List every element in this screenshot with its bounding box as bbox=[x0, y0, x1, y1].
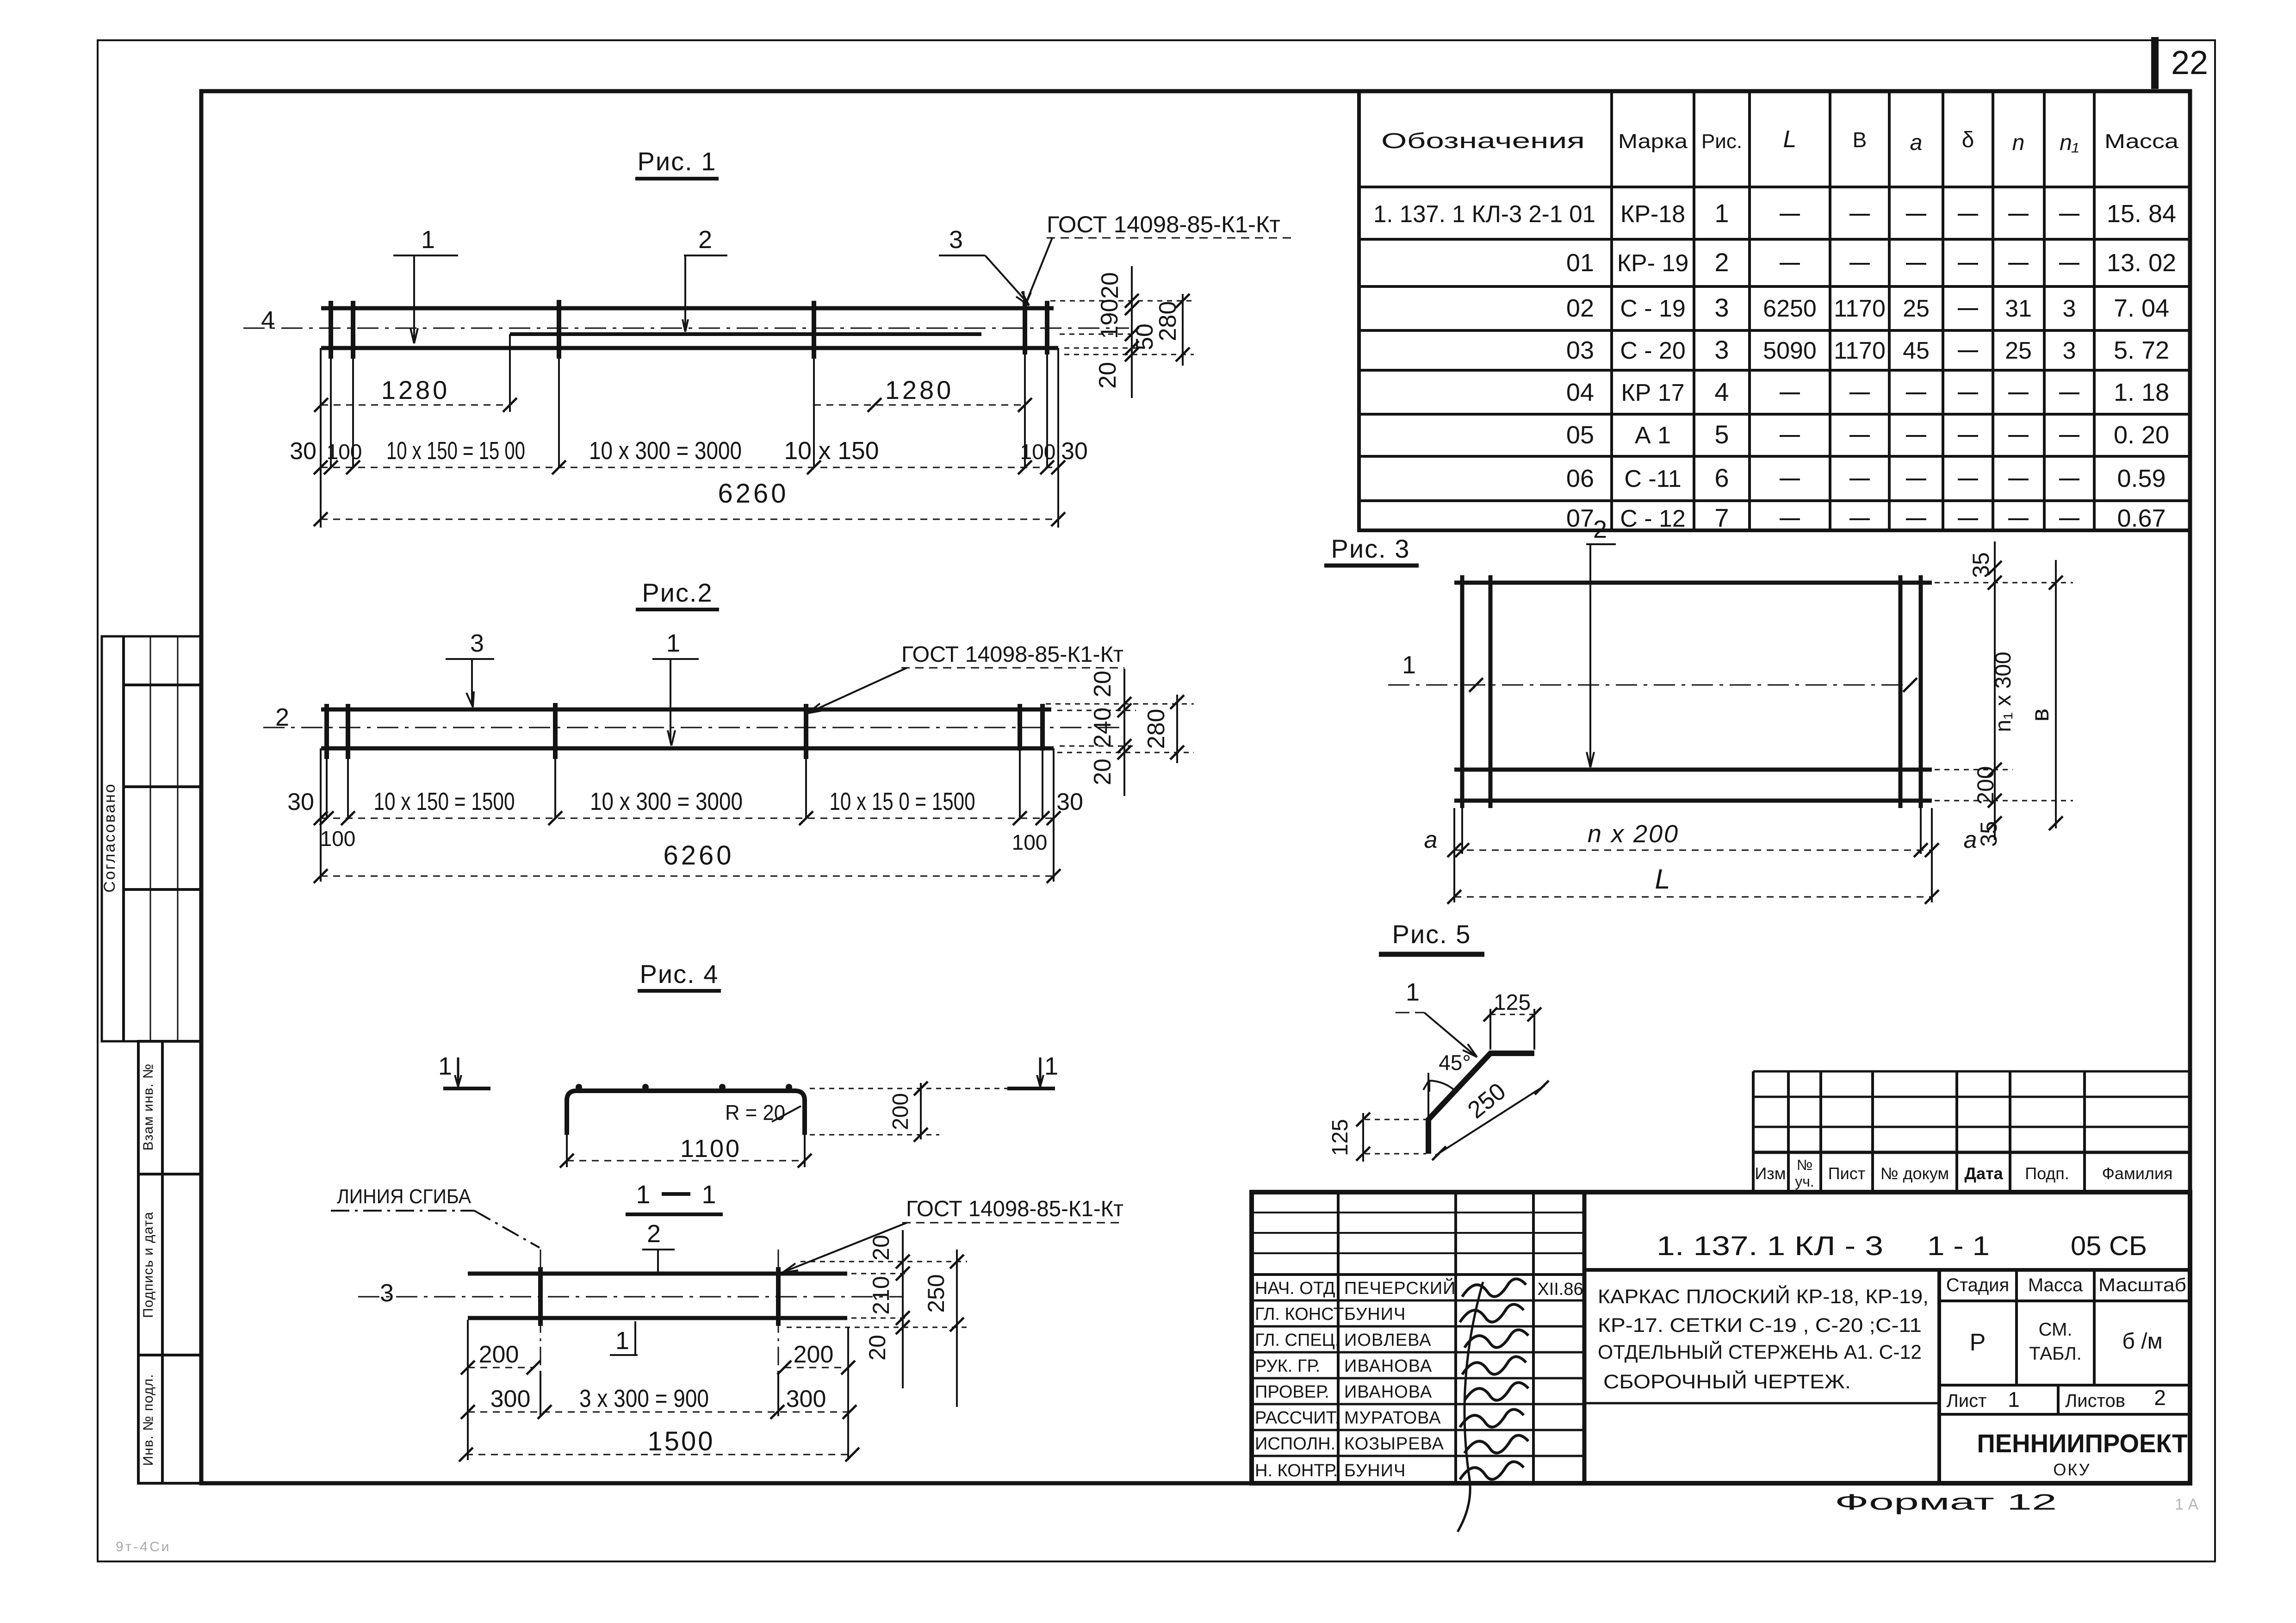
fig1 top chord bar3 bbox=[321, 306, 1054, 311]
svg-text:2: 2 bbox=[1714, 248, 1729, 277]
fig2 cross bar d bbox=[804, 704, 808, 759]
svg-text:ИВАНОВА: ИВАНОВА bbox=[1344, 1382, 1432, 1402]
svg-text:Стадия: Стадия bbox=[1946, 1275, 2009, 1295]
svg-text:№ докум: № докум bbox=[1880, 1164, 1949, 1183]
fig1 dim 1280 left bbox=[321, 404, 510, 406]
svg-text:С - 12: С - 12 bbox=[1620, 505, 1686, 532]
doc number cell line bbox=[1584, 1268, 2190, 1272]
fig2 spacing dims bbox=[287, 788, 1083, 854]
fig5 dim 250 bbox=[1435, 1086, 1545, 1156]
svg-text:КР-18: КР-18 bbox=[1620, 201, 1685, 228]
svg-text:РАССЧИТ.: РАССЧИТ. bbox=[1255, 1408, 1340, 1428]
svg-text:05: 05 bbox=[1566, 421, 1594, 449]
svg-text:ГОСТ 14098-85-К1-Кт: ГОСТ 14098-85-К1-Кт bbox=[1047, 211, 1280, 237]
stage block divider bbox=[1937, 1270, 1941, 1483]
svg-text:Изм: Изм bbox=[1755, 1164, 1786, 1183]
svg-text:10 x 150: 10 x 150 bbox=[784, 437, 879, 465]
revision table grid bbox=[1753, 1071, 2190, 1192]
svg-text:1: 1 bbox=[1402, 651, 1416, 679]
svg-text:СБОРОЧНЫЙ ЧЕРТЕЖ.: СБОРОЧНЫЙ ЧЕРТЕЖ. bbox=[1603, 1370, 1851, 1393]
svg-text:4: 4 bbox=[1714, 377, 1729, 406]
svg-text:1: 1 bbox=[438, 1052, 452, 1080]
fig3 left bar b bbox=[1489, 575, 1493, 808]
svg-text:БУНИЧ: БУНИЧ bbox=[1344, 1461, 1406, 1480]
svg-text:1: 1 bbox=[1406, 978, 1420, 1006]
svg-text:10 x 15 0 = 1500: 10 x 15 0 = 1500 bbox=[830, 788, 975, 815]
fig1 cross bar b bbox=[351, 301, 355, 359]
svg-text:30: 30 bbox=[1061, 438, 1088, 465]
approval strip box bbox=[102, 636, 201, 1041]
svg-text:45°: 45° bbox=[1439, 1051, 1471, 1075]
svg-text:250: 250 bbox=[923, 1274, 949, 1312]
svg-text:КР-17. СЕТКИ С-19 , С-20 ;С-1: КР-17. СЕТКИ С-19 , С-20 ;С-11 bbox=[1598, 1314, 1922, 1337]
svg-text:1170: 1170 bbox=[1834, 337, 1886, 364]
fig3 middle bar bbox=[1454, 768, 1932, 772]
svg-text:ПРОВЕР.: ПРОВЕР. bbox=[1255, 1382, 1329, 1402]
title block responsibles bbox=[1255, 1277, 1456, 1480]
fig3 left bar a bbox=[1460, 575, 1464, 808]
svg-text:200: 200 bbox=[888, 1093, 913, 1130]
svg-text:С - 20: С - 20 bbox=[1620, 337, 1686, 364]
spec table data bbox=[1373, 199, 2176, 532]
svg-text:100: 100 bbox=[1020, 440, 1056, 464]
svg-text:Н. КОНТР.: Н. КОНТР. bbox=[1255, 1461, 1338, 1480]
svg-text:3: 3 bbox=[2063, 337, 2076, 364]
svg-text:ТАБЛ.: ТАБЛ. bbox=[2029, 1343, 2081, 1364]
svg-text:С - 19: С - 19 bbox=[1620, 295, 1686, 322]
svg-text:1170: 1170 bbox=[1834, 295, 1886, 322]
svg-text:2: 2 bbox=[275, 703, 289, 731]
svg-text:20: 20 bbox=[1097, 272, 1123, 299]
svg-text:20: 20 bbox=[1089, 671, 1116, 697]
svg-text:100: 100 bbox=[320, 827, 356, 851]
fig2 cross bar e bbox=[1018, 704, 1022, 751]
svg-text:20: 20 bbox=[1094, 362, 1121, 389]
fig1 bottom chord bar1 bbox=[321, 346, 1058, 350]
svg-text:30: 30 bbox=[287, 789, 314, 815]
svg-text:4: 4 bbox=[261, 306, 275, 334]
svg-text:Рис.2: Рис.2 bbox=[642, 578, 713, 607]
svg-text:35: 35 bbox=[1968, 552, 1994, 578]
fig2 height dims bbox=[1046, 669, 1194, 796]
svg-text:Масштаб: Масштаб bbox=[2098, 1275, 2186, 1295]
svg-text:7: 7 bbox=[1714, 503, 1729, 532]
fig3 top bar bbox=[1454, 581, 1932, 585]
doc name cell line bbox=[1584, 1402, 1939, 1405]
svg-text:3: 3 bbox=[380, 1279, 394, 1307]
svg-text:Пист: Пист bbox=[1828, 1164, 1865, 1183]
svg-text:δ: δ bbox=[1962, 128, 1974, 152]
svg-text:30: 30 bbox=[290, 438, 316, 465]
svg-text:б /м: б /м bbox=[2122, 1329, 2162, 1354]
svg-text:2: 2 bbox=[698, 226, 712, 254]
fig1 spacing dims bbox=[290, 437, 1088, 474]
svg-text:0.59: 0.59 bbox=[2117, 465, 2166, 492]
fig3 right bar a bbox=[1899, 575, 1903, 808]
svg-text:6260: 6260 bbox=[718, 479, 788, 509]
svg-text:№: № bbox=[1797, 1157, 1812, 1173]
svg-text:Масса: Масса bbox=[2028, 1275, 2083, 1295]
svg-text:Подпись и дата: Подпись и дата bbox=[141, 1212, 156, 1318]
fig2 bottom chord bar1 bbox=[321, 746, 1054, 751]
svg-text:1280: 1280 bbox=[381, 375, 450, 404]
svg-text:5. 72: 5. 72 bbox=[2114, 336, 2169, 364]
sec11 width dims bbox=[459, 1320, 859, 1461]
svg-text:280: 280 bbox=[1143, 709, 1170, 749]
fig2 cross bar a bbox=[324, 704, 329, 759]
fig2 cross bar c bbox=[553, 703, 558, 759]
svg-text:ЛИНИЯ СГИБА: ЛИНИЯ СГИБА bbox=[337, 1185, 472, 1208]
svg-text:0.67: 0.67 bbox=[2117, 504, 2166, 532]
svg-text:Рис. 3: Рис. 3 bbox=[1331, 534, 1410, 563]
svg-text:1: 1 bbox=[421, 226, 435, 254]
svg-text:13. 02: 13. 02 bbox=[2107, 249, 2176, 277]
svg-text:06: 06 bbox=[1566, 465, 1594, 492]
svg-text:С -11: С -11 bbox=[1624, 466, 1681, 492]
svg-text:125: 125 bbox=[1328, 1119, 1353, 1156]
svg-text:КОЗЫРЕВА: КОЗЫРЕВА bbox=[1344, 1434, 1444, 1454]
svg-text:300: 300 bbox=[490, 1386, 531, 1412]
svg-text:СМ.: СМ. bbox=[2039, 1319, 2073, 1340]
fig1 cross bar d bbox=[812, 301, 816, 359]
svg-text:1: 1 bbox=[1044, 1052, 1058, 1080]
fig5 dim 125 top bbox=[1489, 1009, 1491, 1050]
fig2 top chord bar3 bbox=[321, 708, 1051, 712]
svg-text:Инв. № подл.: Инв. № подл. bbox=[141, 1374, 156, 1466]
svg-text:1: 1 bbox=[666, 629, 680, 657]
fig1 axis line bbox=[243, 328, 1129, 329]
sec11 bottom bar1 bbox=[468, 1316, 847, 1320]
svg-text:L: L bbox=[1783, 126, 1797, 153]
svg-text:1 А: 1 А bbox=[2175, 1496, 2198, 1513]
svg-text:1 - 1: 1 - 1 bbox=[1927, 1231, 1990, 1261]
fig1 middle bar2 bbox=[510, 332, 981, 336]
fig1 cross bar c bbox=[557, 300, 561, 359]
svg-text:45: 45 bbox=[1903, 337, 1930, 364]
fig1 dim 1280 right bbox=[814, 404, 1025, 406]
svg-text:5: 5 bbox=[1714, 420, 1729, 449]
svg-text:1. 137. 1 КЛ - 3: 1. 137. 1 КЛ - 3 bbox=[1657, 1231, 1883, 1261]
svg-text:25: 25 bbox=[2005, 337, 2032, 364]
fig4 cut mark right bbox=[1007, 1087, 1055, 1090]
doc name bbox=[1598, 1285, 1929, 1393]
svg-text:6: 6 bbox=[1714, 463, 1729, 492]
svg-text:ГОСТ 14098-85-К1-Кт: ГОСТ 14098-85-К1-Кт bbox=[906, 1197, 1123, 1221]
svg-text:n₁ x 300: n₁ x 300 bbox=[1991, 652, 2016, 732]
fig4 channel outline bbox=[567, 1091, 805, 1135]
svg-text:в: в bbox=[2026, 709, 2054, 722]
svg-text:Лист: Лист bbox=[1947, 1391, 1987, 1411]
fig4 dim 1100 bbox=[566, 1135, 568, 1167]
svg-text:1. 137. 1 КЛ-3 2-1 01: 1. 137. 1 КЛ-3 2-1 01 bbox=[1373, 201, 1595, 228]
fig1 dim 6260 bbox=[321, 519, 1058, 520]
svg-text:В: В bbox=[1853, 128, 1867, 152]
svg-text:ПЕННИИПРОЕКТ: ПЕННИИПРОЕКТ bbox=[1977, 1429, 2188, 1458]
svg-text:280: 280 bbox=[1154, 301, 1181, 342]
svg-text:1. 18: 1. 18 bbox=[2114, 379, 2169, 406]
sec11 top bar2 bbox=[468, 1272, 847, 1276]
svg-text:Формат 12: Формат 12 bbox=[1835, 1490, 2057, 1515]
svg-text:НАЧ. ОТД.: НАЧ. ОТД. bbox=[1255, 1279, 1340, 1298]
svg-text:03: 03 bbox=[1566, 336, 1594, 364]
svg-text:Масса: Масса bbox=[2104, 130, 2179, 153]
svg-text:1100: 1100 bbox=[680, 1135, 741, 1163]
svg-text:3: 3 bbox=[470, 629, 484, 657]
sec11 fold line right bbox=[778, 1250, 779, 1371]
svg-text:10 x 300 = 3000: 10 x 300 = 3000 bbox=[589, 437, 742, 465]
svg-text:а: а bbox=[1424, 827, 1438, 853]
svg-text:20: 20 bbox=[868, 1235, 894, 1261]
svg-text:05 СБ: 05 СБ bbox=[2071, 1231, 2147, 1261]
svg-text:2: 2 bbox=[647, 1220, 661, 1248]
svg-text:а: а bbox=[1964, 827, 1977, 853]
svg-text:3: 3 bbox=[949, 226, 963, 254]
svg-text:190: 190 bbox=[1096, 299, 1123, 339]
svg-text:1: 1 bbox=[615, 1327, 629, 1355]
svg-text:3: 3 bbox=[2063, 295, 2076, 322]
svg-text:Согласовано: Согласовано bbox=[101, 783, 118, 892]
svg-text:100: 100 bbox=[327, 440, 362, 464]
svg-text:35: 35 bbox=[1976, 821, 2002, 847]
svg-text:БУНИЧ: БУНИЧ bbox=[1344, 1305, 1406, 1324]
svg-text:А 1: А 1 bbox=[1635, 422, 1671, 449]
fig4 dim 200 bbox=[810, 1088, 1011, 1089]
fig2 dim 6260 bbox=[321, 876, 1054, 877]
svg-text:Листов: Листов bbox=[2065, 1391, 2125, 1411]
fig1 cross bar f bbox=[1045, 301, 1049, 354]
svg-text:02: 02 bbox=[1566, 294, 1594, 322]
svg-text:10 x 150 = 1500: 10 x 150 = 1500 bbox=[374, 788, 515, 815]
fig1 cross bar a bbox=[329, 301, 333, 359]
svg-text:а: а bbox=[1910, 131, 1923, 155]
spec table grid bbox=[1359, 91, 2190, 530]
svg-text:07: 07 bbox=[1566, 504, 1594, 532]
svg-text:L: L bbox=[1655, 864, 1670, 895]
svg-text:6260: 6260 bbox=[663, 840, 734, 871]
fig2 cross bar b bbox=[346, 704, 350, 759]
fig3 width dims bbox=[1424, 808, 1977, 904]
svg-text:1: 1 bbox=[2008, 1387, 2020, 1412]
title block outline bbox=[1252, 1192, 2190, 1483]
fig4 wire dots bbox=[576, 1084, 792, 1090]
fig3 bottom bar bbox=[1454, 799, 1932, 803]
svg-text:ГЛ. СПЕЦ.: ГЛ. СПЕЦ. bbox=[1255, 1331, 1340, 1350]
svg-text:1500: 1500 bbox=[647, 1426, 714, 1456]
svg-text:200: 200 bbox=[794, 1341, 834, 1368]
svg-text:31: 31 bbox=[2005, 295, 2032, 322]
svg-text:n₁: n₁ bbox=[2060, 131, 2079, 155]
fig1 height dims bbox=[1050, 266, 1194, 398]
svg-text:2: 2 bbox=[2154, 1386, 2166, 1410]
fig1 extension lines bbox=[321, 334, 1058, 528]
svg-text:1: 1 bbox=[636, 1180, 650, 1209]
svg-text:n x 200: n x 200 bbox=[1588, 820, 1679, 848]
svg-text:240: 240 bbox=[1089, 708, 1116, 748]
svg-text:200: 200 bbox=[1973, 766, 1998, 804]
sheet count row bbox=[1939, 1385, 2190, 1414]
svg-text:3: 3 bbox=[1714, 293, 1729, 322]
fig3 height dims bbox=[1925, 541, 2073, 847]
fig5 angle 45 bbox=[1427, 1073, 1429, 1117]
svg-text:20: 20 bbox=[864, 1335, 890, 1361]
svg-text:Подп.: Подп. bbox=[2025, 1164, 2069, 1183]
svg-text:Рис. 4: Рис. 4 bbox=[640, 959, 719, 989]
svg-text:уч.: уч. bbox=[1795, 1173, 1814, 1190]
svg-text:200: 200 bbox=[479, 1341, 519, 1368]
svg-text:04: 04 bbox=[1566, 379, 1594, 406]
revision table headers bbox=[1755, 1157, 2172, 1190]
svg-text:Рис.: Рис. bbox=[1701, 130, 1742, 153]
fig1 cross bar e bbox=[1023, 301, 1027, 354]
svg-text:МУРАТОВА: МУРАТОВА bbox=[1344, 1408, 1441, 1428]
sec11 axis line bbox=[358, 1296, 902, 1298]
drawing frame bbox=[201, 91, 2190, 1483]
svg-text:Р: Р bbox=[1970, 1329, 1986, 1356]
svg-text:125: 125 bbox=[1494, 990, 1531, 1015]
svg-text:ГОСТ 14098-85-К1-Кт: ГОСТ 14098-85-К1-Кт bbox=[901, 642, 1123, 667]
sec11 fold bar right bbox=[776, 1267, 781, 1326]
svg-text:R = 20: R = 20 bbox=[725, 1101, 785, 1125]
svg-text:ИОВЛЕВА: ИОВЛЕВА bbox=[1344, 1331, 1432, 1350]
fig2 extension lines bbox=[321, 748, 1054, 882]
sidebar lower boxes bbox=[138, 1041, 201, 1483]
svg-text:1: 1 bbox=[701, 1180, 716, 1209]
svg-text:100: 100 bbox=[1012, 830, 1048, 854]
sec11 fold line left bbox=[540, 1250, 541, 1371]
svg-text:ПЕЧЕРСКИЙ: ПЕЧЕРСКИЙ bbox=[1344, 1277, 1456, 1298]
svg-text:1: 1 bbox=[1714, 199, 1729, 228]
fig2 cross bar f bbox=[1040, 704, 1045, 751]
svg-text:15. 84: 15. 84 bbox=[2107, 200, 2176, 228]
svg-text:КР- 19: КР- 19 bbox=[1617, 250, 1689, 277]
title block signatures bbox=[1458, 1279, 1528, 1532]
svg-text:2: 2 bbox=[1593, 516, 1607, 543]
svg-text:1280: 1280 bbox=[885, 375, 954, 404]
svg-text:9т-4Си: 9т-4Си bbox=[116, 1539, 171, 1555]
svg-text:300: 300 bbox=[786, 1386, 826, 1412]
svg-text:Марка: Марка bbox=[1618, 130, 1688, 153]
fig3 right bar b bbox=[1919, 575, 1923, 808]
svg-text:5090: 5090 bbox=[1763, 337, 1817, 364]
svg-text:Дата: Дата bbox=[1964, 1164, 2003, 1183]
svg-text:РУК. ГР.: РУК. ГР. bbox=[1255, 1356, 1320, 1376]
svg-text:22: 22 bbox=[2171, 44, 2208, 81]
svg-text:n: n bbox=[2012, 131, 2025, 155]
svg-text:Рис. 5: Рис. 5 bbox=[1392, 920, 1471, 949]
spec table headers bbox=[1381, 126, 2179, 155]
sec11 height dims bbox=[787, 1230, 967, 1407]
svg-text:ГЛ. КОНСТ: ГЛ. КОНСТ bbox=[1255, 1305, 1344, 1324]
svg-text:3: 3 bbox=[1714, 335, 1729, 364]
svg-text:Рис. 1: Рис. 1 bbox=[638, 147, 717, 176]
svg-text:210: 210 bbox=[868, 1276, 894, 1314]
svg-text:20: 20 bbox=[1089, 759, 1116, 785]
svg-text:ОКУ: ОКУ bbox=[2053, 1460, 2091, 1479]
svg-text:10 x 150 = 15 00: 10 x 150 = 15 00 bbox=[386, 437, 525, 465]
fig2 axis line bbox=[263, 727, 1124, 728]
svg-text:30: 30 bbox=[1056, 789, 1083, 815]
svg-text:Взам инв. №: Взам инв. № bbox=[141, 1063, 156, 1151]
svg-text:КР 17: КР 17 bbox=[1621, 379, 1684, 406]
svg-text:ОТДЕЛЬНЫЙ СТЕРЖЕНЬ А1. С-12: ОТДЕЛЬНЫЙ СТЕРЖЕНЬ А1. С-12 bbox=[1598, 1341, 1922, 1363]
stage mass scale bbox=[1939, 1270, 2190, 1385]
svg-text:Обозначения: Обозначения bbox=[1381, 129, 1585, 153]
svg-text:7. 04: 7. 04 bbox=[2114, 294, 2169, 322]
svg-text:25: 25 bbox=[1903, 295, 1930, 322]
svg-text:Фамилия: Фамилия bbox=[2102, 1164, 2173, 1183]
svg-text:КАРКАС ПЛОСКИЙ КР-18, КР-19,: КАРКАС ПЛОСКИЙ КР-18, КР-19, bbox=[1598, 1285, 1929, 1308]
svg-text:ИВАНОВА: ИВАНОВА bbox=[1344, 1356, 1432, 1376]
svg-text:ИСПОЛН.: ИСПОЛН. bbox=[1255, 1434, 1335, 1454]
svg-text:0. 20: 0. 20 bbox=[2114, 421, 2169, 449]
svg-text:3 x 300 = 900: 3 x 300 = 900 bbox=[579, 1385, 709, 1412]
svg-text:6250: 6250 bbox=[1763, 295, 1817, 322]
fig5 dim 125 left bbox=[1365, 1119, 1426, 1120]
sec11 fold bar left bbox=[538, 1267, 543, 1326]
svg-text:XII.86: XII.86 bbox=[1537, 1280, 1583, 1299]
fig5 bent bar A1 bbox=[1428, 1053, 1534, 1154]
title block left grid bbox=[1252, 1192, 1584, 1483]
svg-text:01: 01 bbox=[1566, 249, 1594, 277]
svg-text:10 x 300 = 3000: 10 x 300 = 3000 bbox=[590, 788, 743, 815]
